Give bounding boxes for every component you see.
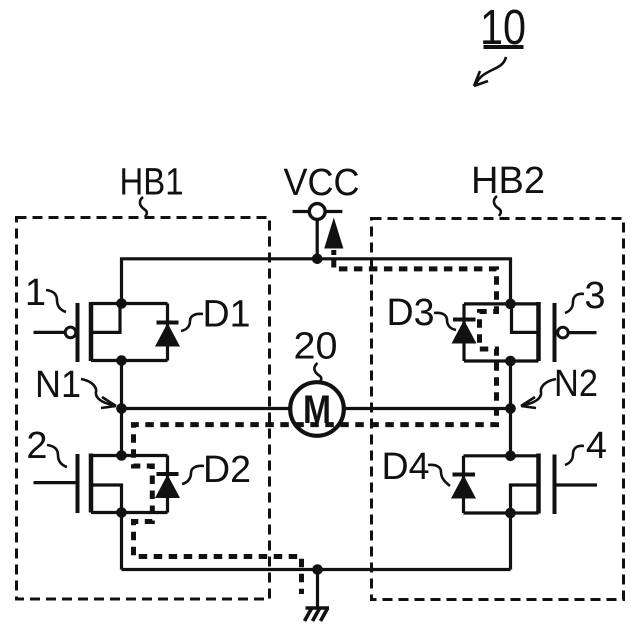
diode D3 branch wire <box>462 304 465 361</box>
tie D2 <box>182 466 204 484</box>
node dot VCC junction <box>312 253 323 264</box>
current path arrowhead at VCC <box>324 218 343 249</box>
svg-text:N1: N1 <box>35 364 81 406</box>
transistor Q1 gate bar <box>76 303 80 362</box>
diode D2 branch wire <box>166 456 169 513</box>
transistor Q4 channel bar <box>536 454 541 514</box>
svg-text:D3: D3 <box>387 292 435 334</box>
underline of 10 <box>484 45 524 49</box>
wire motor right <box>344 407 511 410</box>
transistor Q4 body lead <box>511 485 539 513</box>
transistor Q1 source lead and D1 bottom lead <box>91 359 168 362</box>
transistor Q1 body lead <box>91 304 120 333</box>
arrow N2 <box>524 379 556 405</box>
tie D3 <box>434 313 456 330</box>
node dot Q4 source <box>505 508 516 519</box>
transistor Q3 gate lead <box>569 331 597 334</box>
wire left column T1 source to T2 drain through N1 <box>120 361 123 456</box>
node dot Q3 source <box>505 356 516 367</box>
tie D4 <box>428 465 450 486</box>
transistor Q4 source lead and D4 bottom lead <box>464 511 539 514</box>
dashed box HB2 <box>372 219 624 600</box>
diode D1 cathode bar <box>157 321 179 325</box>
wire T2 source to bottom bus <box>120 513 123 570</box>
svg-text:20: 20 <box>294 326 338 368</box>
node dot Q2 drain <box>116 450 127 461</box>
svg-text:3: 3 <box>584 275 605 317</box>
svg-text:4: 4 <box>586 425 607 467</box>
transistor Q2 source lead and D2 bottom lead <box>91 511 168 514</box>
transistor Q1 gate bubble <box>65 327 76 338</box>
wire ground drop <box>316 570 319 607</box>
svg-text:1: 1 <box>25 272 46 314</box>
tie 3 <box>565 294 584 313</box>
node dot Q2 source <box>116 507 127 518</box>
transistor Q3 drain lead and D3 top lead <box>464 302 539 305</box>
wire VCC drop <box>316 220 319 259</box>
dashed box HB1 <box>17 218 270 600</box>
diode D1 triangle <box>155 323 180 347</box>
tie 2 <box>47 445 67 467</box>
transistor Q2 gate bar <box>76 454 80 513</box>
transistor Q3 source lead and D3 bottom lead <box>464 359 539 362</box>
svg-text:D4: D4 <box>382 446 430 488</box>
node dot Q1 source <box>116 355 127 366</box>
svg-text:VCC: VCC <box>284 162 360 204</box>
diode D2 triangle <box>155 475 180 499</box>
transistor Q2 drain lead and D2 top lead <box>91 454 168 457</box>
transistor Q2 channel bar <box>89 454 94 513</box>
diode D4 branch wire <box>462 456 465 513</box>
node dot Q4 drain <box>505 451 516 462</box>
wire motor left <box>122 407 291 410</box>
transistor Q3 gate bubble <box>558 327 569 338</box>
diode D2 cathode bar <box>157 472 179 476</box>
wire top bus <box>122 259 511 304</box>
svg-text:D2: D2 <box>203 449 251 491</box>
transistor Q3 channel bar <box>536 302 541 361</box>
transistor Q4 drain lead and D4 top lead <box>464 454 539 457</box>
tie 20 <box>314 363 321 382</box>
transistor Q3 body lead <box>512 304 539 333</box>
node dot Q3 drain <box>505 299 516 310</box>
transistor Q1 drain lead and D1 top lead <box>91 302 168 305</box>
transistor Q1 gate lead <box>34 331 65 334</box>
current path thick dashed route <box>134 259 497 594</box>
transistor Q2 body lead <box>91 485 122 513</box>
current path arrow tail dash <box>331 250 336 255</box>
transistor Q1 channel bar <box>89 302 94 361</box>
node N1 <box>116 403 127 414</box>
node N2 <box>505 403 516 414</box>
VCC terminal crossbar <box>293 210 343 213</box>
node dot Q1 drain <box>116 298 127 309</box>
transistor Q3 gate bar <box>553 303 557 362</box>
wire bottom bus <box>122 568 511 571</box>
transistor Q4 gate lead <box>557 483 598 486</box>
svg-text:D1: D1 <box>203 294 251 336</box>
diode D1 branch wire <box>166 304 169 361</box>
diode D4 cathode bar <box>453 473 476 477</box>
svg-text:2: 2 <box>26 425 47 467</box>
diode D4 triangle <box>451 475 476 499</box>
diode D3 cathode bar <box>453 318 476 322</box>
node dot ground junction <box>312 564 323 575</box>
motor M circle <box>290 382 344 436</box>
transistor Q4 gate bar <box>553 455 557 515</box>
svg-text:HB2: HB2 <box>471 160 545 202</box>
wire right column T3 source to T4 drain through N2 <box>509 361 512 456</box>
diode D3 triangle <box>452 320 477 344</box>
leader arrow for 10 <box>476 57 506 84</box>
tie 4 <box>565 446 584 465</box>
svg-text:N2: N2 <box>554 363 598 405</box>
wire T4 source to bottom bus <box>509 513 512 570</box>
tie HB2 <box>494 196 501 216</box>
tie D1 <box>181 314 203 331</box>
tie 1 <box>46 290 66 312</box>
VCC terminal circle <box>309 204 325 220</box>
tie HB1 <box>140 197 147 217</box>
svg-text:HB1: HB1 <box>120 162 184 204</box>
arrow N1 <box>81 379 113 405</box>
transistor Q2 gate lead <box>34 481 76 484</box>
ground <box>305 608 330 621</box>
